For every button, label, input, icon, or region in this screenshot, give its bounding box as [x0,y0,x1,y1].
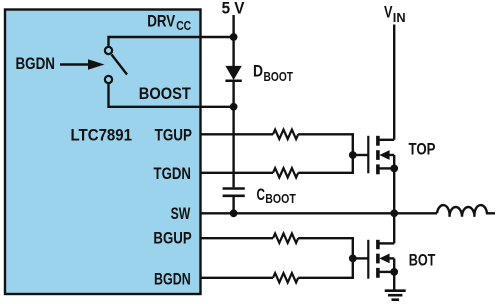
nmos BOT [368,240,394,279]
svg-text:CC: CC [176,19,191,33]
wire BGDN pin to resistor [201,277,274,279]
label VIN [384,4,406,25]
svg-text:BGDN: BGDN [154,270,191,288]
wire diode cathode to BOOST node [232,82,234,107]
ground [385,291,406,300]
resistor R1 (TGUP gate) [273,130,298,139]
label C_BOOT [257,186,297,206]
wire BOT source to ground [393,272,395,291]
label D_BOOT [253,63,293,85]
svg-text:BOOST: BOOST [139,85,191,103]
wire TGDN pin to resistor [201,172,274,174]
junction dot BOT source [390,268,398,276]
svg-text:IN: IN [393,11,406,25]
svg-text:TOP: TOP [409,141,436,159]
wire TGDN resistor to TOP gate node [298,155,353,173]
svg-text:5 V: 5 V [222,0,245,17]
wire BGUP pin to resistor [201,237,274,239]
svg-text:TGDN: TGDN [154,165,191,183]
nmos TOP [368,136,394,175]
wire BGUP resistor to BOT gate node [298,238,353,258]
svg-text:DRV: DRV [147,12,175,30]
capacitor C_BOOT [223,189,245,196]
resistor R2 (TGDN gate) [273,168,298,177]
svg-text:BGUP: BGUP [153,230,191,248]
wire switch bottom to BOOST node [109,84,234,107]
junction dot SW/TOP source [390,209,398,217]
junction dot TOP gate node [349,151,357,159]
svg-text:BOT: BOT [409,252,436,270]
wire SW rail [201,212,438,214]
svg-text:SW: SW [171,205,191,223]
wire 5V supply down to diode [232,15,234,67]
svg-text:V: V [384,4,393,22]
wire BGDN resistor to BOT gate node [298,258,353,277]
wire TGUP pin to resistor [201,133,274,135]
wire switch top to 5V node (DRVCC) [109,37,234,46]
wire SW to BOT drain [393,213,395,243]
switch S1 (DRVCC/BOOST select) [105,47,127,83]
svg-text:BGDN: BGDN [16,55,56,73]
inductor L1 [437,205,495,217]
svg-text:C: C [257,186,266,204]
svg-text:TGUP: TGUP [155,127,192,145]
wire TGUP resistor to TOP gate node [298,134,353,155]
pin label DRVCC [147,12,191,33]
junction dot BOOST/diode [230,103,238,111]
resistor R4 (BGDN gate) [273,273,298,282]
junction dot SW/C_BOOT [230,209,238,217]
wire BOOST node down to capacitor [232,107,234,187]
svg-text:BOOT: BOOT [265,192,296,206]
junction dot TOP source [390,165,398,173]
svg-text:D: D [253,63,263,81]
wire capacitor to SW node [232,197,234,213]
arrow BGDN input [60,59,105,69]
junction dot BOT gate node [349,255,357,263]
resistor R3 (BGUP gate) [273,234,298,243]
wire gate node to TOP gate [353,154,368,156]
wire VIN to TOP drain [393,25,395,140]
diode D_BOOT [225,66,241,81]
svg-text:BOOT: BOOT [264,70,294,84]
svg-text:LTC7891: LTC7891 [71,127,133,145]
wire gate node to BOT gate [353,257,368,259]
junction dot DRVCC/5V [230,33,238,41]
wire TOP source to SW [393,168,395,213]
IC block U1 LTC7891 [5,10,201,295]
